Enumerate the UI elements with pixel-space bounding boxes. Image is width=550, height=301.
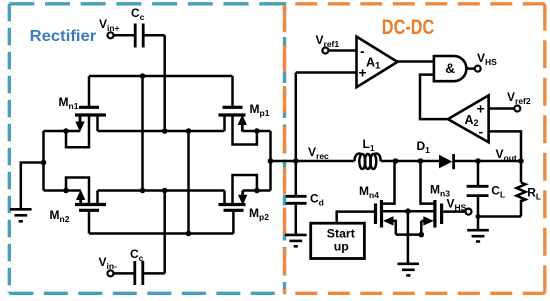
- svg-text:up: up: [334, 240, 349, 254]
- svg-text:-: -: [479, 124, 484, 140]
- svg-text:-: -: [360, 43, 365, 59]
- svg-text:Rectifier: Rectifier: [30, 28, 97, 45]
- svg-text:Start: Start: [327, 227, 355, 241]
- svg-text:DC-DC: DC-DC: [382, 16, 435, 39]
- svg-text:&: &: [445, 61, 455, 76]
- svg-text:+: +: [477, 101, 485, 117]
